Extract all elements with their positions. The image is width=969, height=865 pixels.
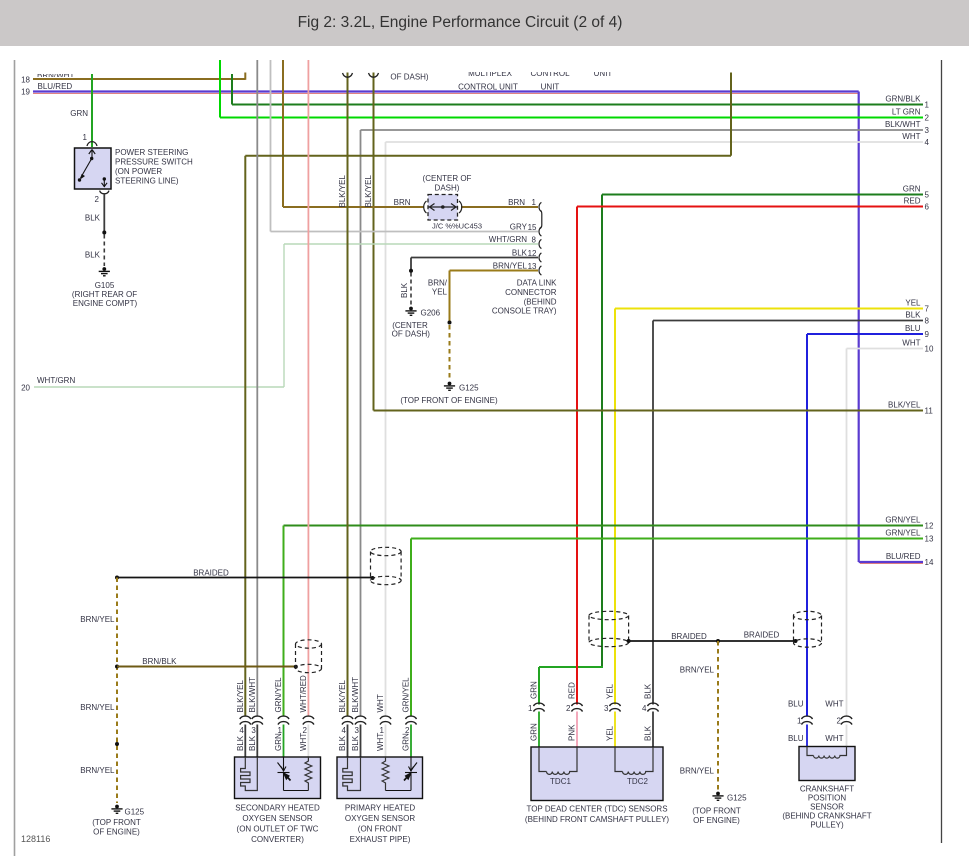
svg-text:GRN/YEL: GRN/YEL (274, 677, 283, 713)
svg-text:BLK/WHT: BLK/WHT (248, 677, 257, 713)
junction braided/BRN-YEL (right) (716, 639, 720, 643)
wire 18 BRN end hook up (244, 73, 246, 80)
title bar (0, 0, 969, 46)
junction on BRN/YEL (left) (115, 742, 119, 746)
wire primary O2 pin 4 BLK stub (347, 725, 349, 759)
wire secondary O2 pin 4 BLK stub (244, 725, 246, 759)
svg-text:2: 2 (95, 195, 100, 204)
svg-text:YEL: YEL (432, 288, 448, 297)
wire BLK/WHT pin 3 horizontal (361, 129, 924, 131)
wire BLK pin 8 vertical to TDC pin 4 (652, 321, 654, 705)
svg-text:BRN/YEL: BRN/YEL (680, 767, 715, 776)
wire BRAIDED (left shield drain) (117, 577, 372, 579)
wire TDC pin 4 BLK stub (652, 712, 654, 749)
ground G206 (405, 307, 416, 316)
wire GRN jog to TDC1 pin 1 (539, 666, 603, 668)
svg-text:1: 1 (532, 198, 537, 207)
wire GRY to DLC pin 15 vertical (270, 60, 272, 232)
svg-text:CONSOLE TRAY): CONSOLE TRAY) (492, 307, 557, 316)
svg-text:PNK: PNK (568, 724, 577, 741)
svg-text:BRN/YEL: BRN/YEL (80, 615, 115, 624)
svg-text:BRN/BLK: BRN/BLK (142, 657, 177, 666)
junction BRN/BLK on BRN/YEL (115, 665, 119, 669)
svg-text:8: 8 (925, 316, 930, 325)
svg-text:(RIGHT REAR OF: (RIGHT REAR OF (72, 290, 137, 299)
wire BLK DLC pin 12 horizontal (411, 257, 538, 259)
svg-text:WHT: WHT (825, 734, 843, 743)
wire BLK/YEL pin 11 horizontal (374, 410, 924, 412)
svg-text:BLK: BLK (400, 282, 409, 298)
cut-off label CONTROL UNIT (527, 72, 573, 76)
junction braided at crank shield (794, 639, 798, 643)
wire BRN/BLK to secondary shield (117, 666, 295, 668)
svg-text:PULLEY): PULLEY) (810, 821, 844, 830)
frame left border (14, 60, 16, 856)
svg-text:RED: RED (568, 682, 577, 699)
wire crank sensor pin 1 BLU stub (806, 725, 808, 748)
svg-text:YEL: YEL (606, 725, 615, 741)
junction braided/BRN-YEL (left) (115, 576, 119, 580)
DLC pin 1-15 bracket (540, 211, 542, 229)
DLC pin 12 terminal arc (539, 253, 541, 262)
inline connector (primary O2 pin 4 BLK) (342, 716, 353, 725)
svg-text:BRN/YEL: BRN/YEL (80, 766, 115, 775)
secondary O2 resistor (305, 757, 312, 791)
svg-text:4: 4 (642, 704, 647, 713)
wire WHT pin 10 vertical to crank sensor pin 2 (846, 349, 848, 717)
svg-text:CONNECTOR: CONNECTOR (505, 288, 557, 297)
inline connector (primary O2 pin 2 GRN) (406, 716, 417, 725)
node: BLU/RED vertical to pin 14 (858, 92, 860, 563)
svg-text:OF ENGINE): OF ENGINE) (93, 828, 140, 837)
wire GRN/YEL pin 13 vertical to primary O2 pin 2 (410, 539, 412, 717)
svg-text:CONTROL UNIT: CONTROL UNIT (458, 83, 518, 92)
wire GRN/YEL pin 12 horizontal (284, 525, 924, 527)
svg-text:OXYGEN SENSOR: OXYGEN SENSOR (345, 814, 415, 823)
svg-text:PRESSURE SWITCH: PRESSURE SWITCH (115, 158, 193, 167)
wire crank sensor pin 2 WHT stub (846, 725, 848, 748)
wire GRN pin 5 vertical (601, 195, 603, 668)
svg-text:BRAIDED: BRAIDED (744, 631, 780, 640)
svg-text:BLK: BLK (512, 249, 528, 258)
wire GRN/YEL pin 13 horizontal (411, 538, 923, 540)
svg-text:20: 20 (21, 384, 30, 393)
power steering pressure switch box (75, 148, 112, 189)
svg-text:DATA LINK: DATA LINK (517, 279, 557, 288)
wire BLK/YEL primary O2 vertical (347, 73, 349, 717)
wire BRN/YEL DLC pin 13 horizontal (450, 270, 539, 272)
svg-text:GRN: GRN (530, 681, 539, 699)
svg-text:WHT: WHT (902, 338, 920, 347)
svg-text:BLK/YEL: BLK/YEL (338, 679, 347, 712)
svg-text:STEERING LINE): STEERING LINE) (115, 177, 179, 186)
svg-text:128116: 128116 (21, 834, 50, 844)
wire secondary O2 pin 2 WHT stub (307, 725, 309, 759)
svg-text:GRN: GRN (903, 184, 921, 193)
junction on PS BLK ground lead (102, 231, 106, 235)
svg-text:GRN: GRN (530, 723, 539, 741)
wire WHT pin 4 horizontal (386, 141, 924, 143)
wire TDC pin 1 GRN stub (538, 712, 540, 749)
svg-text:G125: G125 (459, 384, 479, 393)
svg-text:TOP DEAD CENTER (TDC) SENSORS: TOP DEAD CENTER (TDC) SENSORS (526, 805, 667, 814)
svg-text:8: 8 (532, 236, 537, 245)
svg-text:1: 1 (797, 717, 802, 726)
wire BLK/YEL riser to top (730, 73, 732, 156)
shield braid around crank sensor BLU (794, 611, 822, 647)
primary O2 heater element (343, 757, 361, 791)
wire GRY to DLC pin 15 horizontal (271, 231, 539, 233)
svg-text:2: 2 (925, 113, 930, 122)
svg-text:BLU: BLU (905, 324, 921, 333)
svg-text:SENSOR: SENSOR (810, 803, 844, 812)
junction on BRN/YEL ground lead (448, 321, 452, 325)
svg-text:3: 3 (355, 726, 360, 735)
wire BRN J/C to DLC pin 1 (461, 206, 538, 208)
svg-text:15: 15 (528, 223, 537, 232)
wire secondary O2 pin 3 BLK stub (256, 725, 258, 759)
svg-text:BRN/YEL: BRN/YEL (493, 262, 528, 271)
svg-text:EXHAUST PIPE): EXHAUST PIPE) (350, 835, 411, 844)
svg-text:BLU/RED: BLU/RED (886, 552, 921, 561)
svg-text:OXYGEN SENSOR: OXYGEN SENSOR (242, 814, 312, 823)
svg-text:BLK/WHT: BLK/WHT (885, 120, 921, 129)
svg-text:OF DASH): OF DASH) (392, 329, 431, 338)
svg-text:3: 3 (604, 704, 609, 713)
wire BRN/YEL dashed to G125 (left) (116, 578, 118, 804)
wire BLK/YEL horizontal run (245, 155, 731, 157)
junction BRN/BLK at shield (secondary) (294, 665, 298, 669)
wire BLK/WHT secondary O2 vertical (256, 60, 258, 717)
DLC pin 15 terminal arc (539, 227, 541, 236)
crank sensor coil (807, 747, 847, 759)
svg-text:BLK/YEL: BLK/YEL (364, 174, 373, 207)
svg-text:WHT: WHT (902, 132, 920, 141)
shield braid around primary O2 WHT (371, 547, 402, 584)
inline connector (primary O2 pin 3 BLK) (355, 716, 366, 725)
svg-text:WHT: WHT (376, 733, 385, 751)
crankshaft position sensor box (799, 747, 855, 781)
svg-text:11: 11 (925, 406, 934, 415)
cut-off label above wire 18 (37, 74, 77, 77)
wire BLK pin 8 horizontal (653, 320, 923, 322)
svg-text:19: 19 (21, 88, 30, 97)
connector arc atop BLK/YEL 11 (369, 73, 379, 77)
wire BRN into J/C (283, 206, 424, 208)
secondary heated oxygen sensor box (235, 757, 321, 799)
svg-text:14: 14 (925, 558, 934, 567)
switch symbol inside PS switch (78, 150, 107, 188)
svg-text:GRY: GRY (510, 223, 528, 232)
svg-text:BLK/YEL: BLK/YEL (888, 400, 921, 409)
ground G125 (center) (444, 382, 455, 391)
ground G125 (right) (712, 792, 723, 801)
svg-text:(CENTER OF: (CENTER OF (423, 174, 472, 183)
wire primary O2 pin 1 WHT stub (385, 725, 387, 759)
svg-text:BLK: BLK (644, 683, 653, 699)
cut-off label UNIT (585, 72, 621, 76)
svg-text:POWER STEERING: POWER STEERING (115, 148, 188, 157)
wire BRN/YEL dashed to G125 (right) (717, 641, 719, 790)
svg-text:13: 13 (528, 262, 537, 271)
DLC pin 13 terminal arc (539, 266, 541, 275)
svg-text:BLK/YEL: BLK/YEL (338, 174, 347, 207)
wire RED pin 6 vertical to TDC pin 2 (576, 207, 578, 705)
svg-text:BLK: BLK (644, 725, 653, 741)
inline connector (TDC pin 2 PNK) (572, 703, 583, 712)
TDC2 coil (615, 747, 653, 774)
svg-text:BRN/YEL: BRN/YEL (80, 703, 115, 712)
svg-text:6: 6 (925, 202, 930, 211)
TDC sensors box (531, 747, 663, 801)
svg-text:10: 10 (925, 344, 934, 353)
wire BLK from PS switch pin 2 (103, 195, 105, 232)
svg-text:GRN/YEL: GRN/YEL (885, 515, 921, 524)
primary O2 sensing element (arrow) (386, 757, 418, 791)
secondary O2 sensing element (arrow) (278, 757, 309, 791)
wire GRN/YEL pin 12 vertical to secondary O2 pin 1 (283, 526, 285, 717)
connector arc at PS switch pin 1 (87, 142, 97, 146)
svg-text:GRN/YEL: GRN/YEL (402, 677, 411, 713)
svg-text:TDC1: TDC1 (550, 777, 571, 786)
svg-text:RED: RED (904, 196, 921, 205)
TDC1 coil (539, 747, 577, 774)
svg-text:(TOP FRONT: (TOP FRONT (92, 818, 141, 827)
primary heated oxygen sensor box (337, 757, 423, 799)
inline connector (TDC pin 4 BLK) (648, 703, 659, 712)
svg-text:18: 18 (21, 76, 30, 85)
shield braid around TDC wires (589, 611, 629, 646)
frame right border (941, 60, 943, 843)
svg-text:3: 3 (251, 726, 256, 735)
svg-text:BLK: BLK (905, 310, 921, 319)
svg-text:(ON OUTLET OF TWC: (ON OUTLET OF TWC (237, 825, 319, 834)
DLC pin 8 terminal arc (539, 239, 541, 248)
svg-text:BLU: BLU (788, 734, 804, 743)
wire LT GRN pin 2 horizontal (220, 117, 923, 119)
svg-text:BLK: BLK (85, 251, 101, 260)
svg-text:BRAIDED: BRAIDED (193, 569, 229, 578)
svg-text:WHT/GRN: WHT/GRN (489, 235, 527, 244)
wire WHT/RED secondary O2 vertical (307, 60, 309, 717)
svg-text:BLK: BLK (248, 735, 257, 751)
svg-text:YEL: YEL (606, 683, 615, 699)
svg-text:OF DASH): OF DASH) (390, 73, 429, 82)
svg-text:BRN: BRN (394, 198, 411, 207)
shield braid around secondary O2 WHT/RED (296, 640, 322, 673)
wire BLK/WHT pin 3 vertical (to primary O2 pin 3) (360, 130, 362, 717)
svg-text:SECONDARY HEATED: SECONDARY HEATED (235, 804, 320, 813)
svg-text:G125: G125 (727, 794, 747, 803)
junction braided at TDC shield (627, 639, 631, 643)
svg-text:2: 2 (837, 717, 842, 726)
svg-text:G125: G125 (125, 808, 145, 817)
wire BLK dashed to G105 (103, 235, 105, 267)
svg-text:(BEHIND FRONT CAMSHAFT PULLEY): (BEHIND FRONT CAMSHAFT PULLEY) (525, 815, 670, 824)
svg-text:LT GRN: LT GRN (892, 107, 921, 116)
inline connector (secondary O2 pin 2 WHT) (303, 716, 314, 725)
svg-text:DASH): DASH) (435, 183, 460, 192)
wire BLK/YEL pin 11 vertical (373, 73, 375, 411)
wire YEL pin 7 vertical to TDC pin 3 (614, 309, 616, 705)
svg-text:WHT: WHT (376, 694, 385, 712)
wire WHT/GRN to DLC pin 8 (284, 243, 538, 245)
svg-text:1: 1 (528, 704, 533, 713)
svg-text:BLK: BLK (236, 735, 245, 751)
svg-text:(ON POWER: (ON POWER (115, 167, 162, 176)
svg-text:5: 5 (925, 190, 930, 199)
wire 20 WHT/GRN horizontal bottom (34, 386, 284, 388)
svg-text:PRIMARY HEATED: PRIMARY HEATED (345, 804, 415, 813)
svg-text:GRN/YEL: GRN/YEL (885, 528, 921, 537)
svg-text:BLK: BLK (338, 735, 347, 751)
wire 19 BLU/RED horizontal (33, 90, 859, 92)
junction braided at shield (primary WHT) (371, 576, 375, 580)
svg-text:(ON FRONT: (ON FRONT (358, 825, 403, 834)
svg-text:GRN: GRN (402, 733, 411, 751)
svg-text:BRN: BRN (508, 198, 525, 207)
wire primary O2 pin 3 BLK stub (360, 725, 362, 759)
svg-text:CRANKSHAFT: CRANKSHAFT (800, 785, 854, 794)
wire RED pin 6 horizontal (577, 206, 923, 208)
secondary O2 heater element (241, 757, 258, 791)
wire secondary O2 pin 1 GRN stub (283, 725, 285, 759)
ground G105 (99, 267, 110, 276)
inline connector (crank sensor pin 2 WHT) (841, 716, 852, 725)
svg-text:WHT/RED: WHT/RED (299, 675, 308, 713)
inline connector (crank sensor pin 1 BLU) (802, 716, 813, 725)
svg-text:GRN: GRN (70, 109, 88, 118)
svg-text:(TOP FRONT OF ENGINE): (TOP FRONT OF ENGINE) (400, 396, 498, 405)
wire 18 BRN horizontal (33, 78, 245, 80)
wire GRN pin 5 horizontal (602, 194, 923, 196)
svg-text:4: 4 (925, 138, 930, 147)
wire BRN/YEL dashed to G125 (449, 325, 451, 380)
svg-text:BLK/WHT: BLK/WHT (351, 677, 360, 713)
svg-text:BLU/RED: BLU/RED (38, 82, 73, 91)
svg-text:7: 7 (925, 304, 930, 313)
inline connector (secondary O2 pin 4 BLK) (240, 716, 251, 725)
connector arc at PS switch pin 2 (100, 191, 109, 194)
junction connector J/C UC453 (428, 195, 458, 221)
ground G125 (left) (111, 805, 122, 814)
svg-text:(BEHIND CRANKSHAFT: (BEHIND CRANKSHAFT (782, 812, 871, 821)
svg-text:WHT: WHT (299, 733, 308, 751)
wire YEL pin 7 horizontal (615, 308, 923, 310)
primary O2 resistor (382, 757, 389, 791)
svg-text:BRN/: BRN/ (428, 279, 448, 288)
svg-text:12: 12 (925, 521, 934, 530)
svg-text:WHT/GRN: WHT/GRN (37, 376, 75, 385)
wire GRN/BLK pin 1 vertical (231, 74, 233, 105)
svg-text:9: 9 (925, 330, 930, 339)
wire BRAIDED (TDC to crank sensor) (629, 640, 796, 642)
inline connector (primary O2 pin 1 WHT) (380, 716, 391, 725)
wire BLK/YEL secondary O2 vertical (244, 156, 246, 717)
svg-text:(BEHIND: (BEHIND (524, 297, 557, 306)
svg-text:13: 13 (925, 534, 934, 543)
svg-text:3: 3 (925, 126, 930, 135)
svg-text:1: 1 (925, 100, 930, 109)
svg-text:YEL: YEL (905, 298, 921, 307)
inline connector (TDC pin 3 YEL) (610, 703, 621, 712)
svg-text:BRN/YEL: BRN/YEL (680, 666, 715, 675)
wire BLK corner down (410, 258, 412, 271)
svg-text:2: 2 (566, 704, 571, 713)
svg-text:CONVERTER): CONVERTER) (251, 835, 304, 844)
wire BRN/YEL vertical (449, 271, 451, 322)
svg-text:WHT: WHT (825, 700, 843, 709)
svg-text:G206: G206 (421, 309, 441, 318)
svg-text:1: 1 (83, 133, 88, 142)
svg-text:GRN: GRN (274, 733, 283, 751)
svg-text:UNIT: UNIT (541, 83, 560, 92)
wire TDC pin 3 YEL stub (614, 712, 616, 749)
svg-text:OF ENGINE): OF ENGINE) (693, 816, 740, 825)
wire 19 red stripe (33, 92, 859, 94)
svg-text:ENGINE COMPT): ENGINE COMPT) (73, 299, 138, 308)
svg-text:BLK/YEL: BLK/YEL (236, 679, 245, 712)
wire GRN/BLK pin 1 horizontal (232, 104, 923, 106)
inline connector (secondary O2 pin 1 GRN) (278, 716, 289, 725)
wire GRN to power steering switch (91, 74, 93, 147)
svg-text:(TOP FRONT: (TOP FRONT (692, 807, 741, 816)
wire BRN vertical (to J/C UC453) (282, 60, 284, 207)
svg-text:TDC2: TDC2 (627, 777, 648, 786)
wire WHT/GRN vertical riser (283, 244, 285, 387)
svg-text:BLK: BLK (351, 735, 360, 751)
inline connector (secondary O2 pin 3 BLK) (252, 716, 263, 725)
svg-text:12: 12 (528, 249, 537, 258)
svg-text:BLU: BLU (788, 700, 804, 709)
svg-text:4: 4 (342, 726, 347, 735)
svg-text:G105: G105 (95, 281, 115, 290)
svg-text:J/C %%UC453: J/C %%UC453 (432, 222, 482, 231)
svg-text:BLK: BLK (85, 214, 101, 223)
cut-off label MULTIPLEX CONTROL UNIT (462, 72, 518, 76)
svg-text:4: 4 (239, 726, 244, 735)
svg-text:GRN/BLK: GRN/BLK (885, 94, 921, 103)
wire BLU pin 9 horizontal (807, 333, 923, 335)
connector arc atop BLK/YEL primary (343, 73, 353, 77)
svg-text:POSITION: POSITION (808, 794, 846, 803)
junction on BLK ground lead (409, 269, 413, 273)
DLC pin 1 terminal arc (539, 202, 541, 211)
wire WHT pin 10 horizontal (847, 348, 924, 350)
wire LT GRN pin 2 vertical (219, 60, 221, 118)
svg-text:BRAIDED: BRAIDED (671, 632, 707, 641)
wire primary O2 pin 2 GRN stub (410, 725, 412, 759)
wire TDC pin 2 PNK stub (576, 712, 578, 749)
wire BLK dashed to G206 (410, 273, 412, 306)
wire BLU pin 9 vertical to crank sensor pin 1 (806, 334, 808, 717)
inline connector (TDC pin 1 GRN) (534, 703, 545, 712)
wire BLU/RED pin 14 stub (859, 561, 923, 563)
wire WHT pin 4 vertical (to primary O2 pin 1) (385, 142, 387, 717)
